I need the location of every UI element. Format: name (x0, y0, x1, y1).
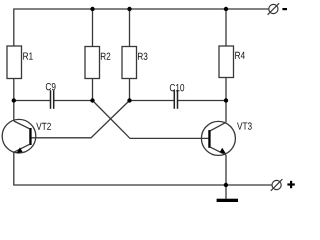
resistor R4 (219, 46, 245, 78)
ground (217, 199, 238, 202)
transistor VT2 (2, 119, 51, 153)
node C dot R3/C10/VT2 base (127, 98, 131, 102)
wire cross-coupling node B to VT3 base (93, 101, 209, 139)
label plus sign horizontal stroke (287, 183, 294, 185)
label C9 (46, 83, 56, 90)
label plus sign vertical stroke (290, 181, 292, 188)
node D dot R4/C10/VT3 collector (224, 98, 228, 102)
label C10 (170, 84, 184, 91)
VT3 emitter arrow (220, 148, 226, 154)
VT3 emitter lead (210, 147, 226, 155)
terminal plus (bottom right) (271, 179, 295, 191)
node dot top rail R4 (224, 7, 228, 11)
capacitor C9 (46, 83, 56, 109)
node B dot R2/C9/VT3 base (90, 98, 94, 102)
label R3 (138, 53, 147, 60)
wire R3 bottom to node (129, 79, 131, 101)
resistor R3 (122, 47, 147, 79)
label R1 (23, 53, 32, 60)
C10 right plate (177, 90, 179, 109)
VT2 base bar (29, 128, 31, 145)
node dot top rail R2 (90, 7, 94, 11)
wire R1 bottom to node (13, 79, 15, 101)
plus terminal circle (272, 180, 281, 189)
minus terminal slash (268, 3, 280, 15)
wire node C to C10 left plate (130, 100, 174, 102)
label minus sign (282, 8, 287, 10)
wire R3 top drop (129, 9, 131, 47)
wire C9 right plate to node B (54, 100, 92, 102)
wire R2 top drop (92, 9, 94, 47)
wire VT3 emitter down (225, 155, 227, 185)
VT3 collector lead (210, 122, 226, 130)
VT2 emitter arrow (16, 147, 22, 153)
node dot top rail R3 (127, 7, 131, 11)
VT2 body circle (2, 119, 36, 153)
C10 left plate (173, 90, 175, 109)
VT3 body circle (201, 121, 235, 155)
wire VT2 emitter down and bottom rail (14, 152, 272, 185)
node dot bottom rail VT3 emitter (224, 183, 228, 187)
minus terminal circle (269, 4, 278, 13)
label VT3 (237, 122, 252, 129)
resistor R2 (85, 47, 110, 79)
plus terminal slash (271, 179, 283, 191)
wire VT3 collector (225, 101, 227, 123)
wire C10 right plate to node D (178, 100, 226, 102)
C9 left plate (50, 90, 52, 109)
label R2 (101, 53, 110, 60)
label R4 (235, 52, 245, 59)
wire node A to C9 left plate (14, 100, 50, 102)
wire R4 bottom to node (225, 78, 227, 101)
wire VT2 collector (13, 101, 15, 122)
capacitor C10 (170, 84, 184, 109)
terminal minus (top right) (268, 3, 287, 15)
wire cross-coupling node C to VT2 base (31, 101, 130, 138)
wire ground stub (225, 185, 227, 199)
node A dot R1/C9/VT2 collector (12, 98, 16, 102)
transistor VT3 (201, 121, 251, 155)
wire top rail with left corner down to R1 (14, 9, 269, 46)
VT2 emitter lead (14, 144, 30, 152)
wire R2 bottom to node (92, 79, 94, 101)
VT3 base bar (208, 130, 210, 148)
VT2 collector lead (14, 121, 30, 129)
resistor R1 (7, 46, 33, 79)
wire R4 top drop (225, 9, 227, 46)
label VT2 (36, 123, 51, 130)
C9 right plate (53, 90, 55, 109)
